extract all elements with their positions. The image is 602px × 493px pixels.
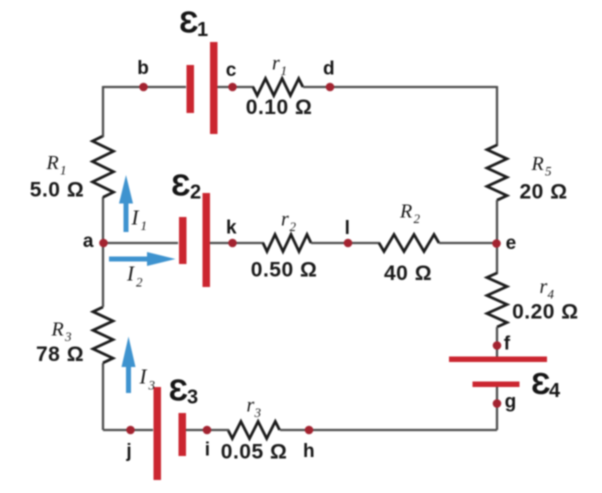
resistor r4 [487, 273, 507, 327]
svg-text:R: R [531, 153, 544, 175]
current arrow I1 [119, 175, 133, 232]
resistor R5 [487, 145, 507, 200]
svg-text:R: R [51, 319, 64, 341]
node f [493, 341, 502, 350]
svg-text:3: 3 [64, 329, 72, 344]
wire bottom rail battery E3 to r3 [186, 429, 229, 431]
svg-text:Ɛ: Ɛ [531, 366, 550, 401]
node a [99, 239, 108, 248]
svg-text:0.05 Ω: 0.05 Ω [221, 440, 288, 463]
svg-text:d: d [323, 59, 335, 80]
resistor r2 [263, 235, 311, 252]
wire right rail top to R5 [496, 86, 498, 146]
svg-text:Ɛ: Ɛ [171, 168, 190, 203]
svg-text:R: R [399, 201, 412, 223]
wire top rail d to right corner [303, 86, 497, 88]
svg-text:r: r [272, 53, 280, 75]
node d [326, 83, 335, 92]
svg-text:c: c [226, 60, 237, 81]
resistor R2 [379, 235, 439, 252]
wire bottom rail j corner to battery E3 [103, 429, 153, 431]
svg-text:3: 3 [254, 405, 262, 420]
svg-text:4: 4 [549, 380, 561, 402]
battery E2 short plate [179, 217, 187, 264]
wire middle rail r2 to node l to R2 [311, 242, 380, 244]
wire right rail battery E4 to node g to bottom corner [496, 386, 498, 430]
wire left rail top corner to R1 [102, 86, 104, 137]
svg-text:Ɛ: Ɛ [179, 5, 198, 40]
svg-text:0.50 Ω: 0.50 Ω [251, 259, 318, 282]
svg-text:g: g [505, 391, 517, 412]
node c [228, 83, 237, 92]
svg-text:e: e [506, 233, 517, 254]
svg-text:i: i [205, 440, 210, 461]
svg-text:j: j [125, 441, 131, 462]
svg-text:3: 3 [187, 387, 198, 409]
svg-text:2: 2 [290, 219, 297, 234]
svg-text:b: b [137, 58, 149, 79]
svg-text:I: I [139, 365, 148, 389]
svg-text:5: 5 [545, 164, 552, 179]
svg-text:1: 1 [141, 218, 148, 233]
battery E4 short plate [473, 382, 520, 388]
wire top rail left segment b to battery E1 [103, 86, 186, 88]
wire middle rail R2 to node e [439, 242, 497, 244]
svg-text:Ɛ: Ɛ [169, 373, 188, 408]
current arrow I2 [109, 252, 176, 266]
svg-text:3: 3 [148, 378, 156, 393]
resistor r1 [253, 79, 303, 96]
node h [305, 426, 314, 435]
svg-text:2: 2 [190, 182, 201, 204]
svg-text:4: 4 [548, 287, 555, 302]
svg-text:r: r [540, 276, 548, 298]
wire bottom rail right segment h to corner [280, 429, 497, 431]
svg-text:2: 2 [136, 275, 143, 290]
battery E2 long plate [203, 193, 211, 287]
svg-text:r: r [247, 395, 255, 417]
wire middle rail battery E2 to r2 [210, 242, 264, 244]
svg-text:I: I [131, 206, 140, 230]
svg-text:78 Ω: 78 Ω [36, 343, 84, 366]
node e [492, 239, 501, 248]
current arrow I3 [122, 337, 136, 394]
node g [493, 399, 502, 408]
svg-text:0.20 Ω: 0.20 Ω [512, 301, 579, 324]
svg-text:20 Ω: 20 Ω [520, 181, 568, 204]
svg-text:h: h [303, 441, 315, 462]
wire right rail R5 to node e to r4 [496, 200, 498, 274]
svg-text:1: 1 [60, 163, 67, 178]
svg-text:0.10 Ω: 0.10 Ω [246, 96, 313, 119]
battery E3 short plate [179, 413, 187, 456]
svg-text:2: 2 [414, 211, 421, 226]
svg-text:R: R [46, 152, 59, 174]
svg-text:f: f [504, 334, 511, 355]
wire middle rail a to battery E2 [103, 242, 178, 244]
svg-text:a: a [83, 231, 94, 252]
resistor r3 [228, 422, 280, 439]
node l [344, 239, 353, 248]
wire left rail bottom R3 to j corner [102, 363, 104, 430]
svg-text:1: 1 [281, 63, 288, 78]
svg-text:1: 1 [197, 19, 208, 41]
battery E1 long plate [210, 42, 218, 134]
resistor R1 [93, 136, 114, 197]
svg-text:40 Ω: 40 Ω [384, 262, 432, 285]
node k [228, 239, 237, 248]
wire top rail segment battery E1 to r1 [217, 86, 254, 88]
node i [203, 426, 212, 435]
svg-text:I: I [126, 262, 135, 286]
wire left rail node a to R3 [102, 197, 104, 307]
svg-text:l: l [345, 218, 350, 239]
svg-text:5.0 Ω: 5.0 Ω [30, 178, 84, 201]
svg-text:r: r [281, 209, 289, 231]
node j [126, 426, 135, 435]
battery E4 long plate [449, 357, 547, 363]
svg-text:k: k [226, 218, 237, 239]
resistor R3 [93, 307, 113, 363]
wire right rail r4 to node f to battery E4 [496, 327, 498, 357]
node b [139, 83, 148, 92]
battery E1 short plate [187, 65, 195, 113]
battery E3 long plate [154, 387, 162, 480]
